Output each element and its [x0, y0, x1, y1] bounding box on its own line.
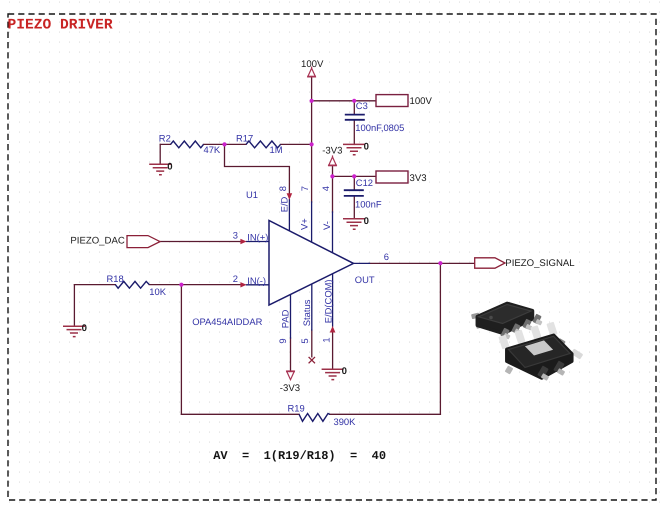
- svg-text:6: 6: [384, 251, 389, 262]
- svg-text:100V: 100V: [410, 96, 433, 107]
- svg-text:100nF,0805: 100nF,0805: [355, 122, 404, 133]
- wire pin 7 upper segment: [311, 144, 313, 202]
- svg-text:C12: C12: [356, 177, 373, 188]
- svg-text:1: 1: [320, 337, 331, 342]
- wire pin 5 to no-connect: [311, 330, 313, 357]
- junction R18/IN- node: [179, 283, 183, 287]
- arrow on pin 8 wire (down): [287, 193, 293, 200]
- pin 9 stub: [290, 295, 292, 338]
- ground under R2: [149, 164, 171, 174]
- junction C12 tap: [352, 174, 356, 178]
- wire R18 horizontal net to IN-: [74, 284, 240, 286]
- arrow into pin 2: [240, 282, 246, 287]
- pin 6 stub: [354, 262, 370, 264]
- wire C3 bottom lead to ground: [353, 120, 355, 144]
- svg-text:PIEZO_SIGNAL: PIEZO_SIGNAL: [505, 258, 575, 269]
- svg-text:-3V3: -3V3: [280, 383, 300, 394]
- junction 100V rail upper: [310, 99, 314, 103]
- wire 100V rail to offpage 100V: [312, 100, 376, 102]
- svg-text:3: 3: [233, 230, 238, 241]
- ground under R18: [63, 326, 85, 336]
- wire pin4 node to offpage 3V3: [332, 175, 376, 177]
- pin 4 stub: [332, 212, 334, 253]
- wire E/D branch from R2-R17 node down and right to pin 8: [225, 144, 290, 194]
- wire feedback right vertical: [439, 263, 441, 414]
- power symbol -3V3 (pin9, down): [286, 371, 295, 379]
- IC package photo: [471, 303, 583, 381]
- svg-text:U1: U1: [246, 189, 258, 200]
- offpage connector 3V3 box: [376, 171, 408, 183]
- svg-text:AV = 1(R19/R18) = 40: AV = 1(R19/R18) = 40: [213, 449, 386, 463]
- svg-text:PIEZO DRIVER: PIEZO DRIVER: [8, 17, 113, 33]
- pin 3 stub: [246, 241, 269, 243]
- junction -3V3 node: [330, 174, 334, 178]
- wire R2 left lead to ground: [159, 144, 161, 164]
- ground at pin 1: [322, 369, 344, 379]
- svg-text:Status: Status: [301, 299, 312, 326]
- ground under C3: [343, 144, 365, 154]
- svg-text:E/D(COM): E/D(COM): [322, 279, 333, 323]
- capacitor C12 plates: [344, 190, 364, 196]
- svg-text:IN(+): IN(+): [247, 232, 268, 243]
- op-amp U1 triangle: [269, 221, 354, 306]
- svg-text:-3V3: -3V3: [322, 146, 342, 157]
- pin 1 stub: [332, 274, 334, 326]
- chip B thermal pad: [525, 340, 553, 355]
- svg-text:OPA454AIDDAR: OPA454AIDDAR: [192, 316, 262, 327]
- no-connect X on pin 5: [309, 357, 315, 363]
- svg-text:47K: 47K: [204, 144, 221, 155]
- chip B body: [507, 335, 572, 378]
- resistor R18 body: [115, 281, 149, 288]
- svg-text:IN(-): IN(-): [247, 275, 266, 286]
- svg-text:390K: 390K: [334, 416, 357, 427]
- power symbol 100V: [307, 67, 316, 77]
- svg-text:100V: 100V: [301, 59, 324, 70]
- wire C12 bottom lead to ground: [353, 196, 355, 219]
- svg-text:8: 8: [277, 186, 288, 191]
- arrow on pin 1 wire (up): [330, 326, 336, 333]
- svg-text:0: 0: [167, 161, 172, 172]
- wire -3V3 to pin4 node: [332, 165, 334, 176]
- wire PIEZO_DAC to IN+: [160, 241, 241, 243]
- resistor R19 body: [299, 414, 330, 422]
- chip B bottom pins: [537, 360, 565, 378]
- svg-text:9: 9: [277, 338, 288, 343]
- svg-text:3V3: 3V3: [410, 173, 427, 184]
- wire pin 9 to -3V3: [290, 338, 292, 371]
- wire C3 top lead: [353, 101, 355, 114]
- svg-text:7: 7: [299, 186, 310, 191]
- svg-text:C3: C3: [356, 100, 368, 111]
- chip A left nubs: [471, 313, 485, 329]
- wire OUT to PIEZO_SIGNAL: [369, 262, 475, 264]
- svg-text:0: 0: [342, 366, 347, 377]
- chip A body: [477, 303, 532, 333]
- wire feedback bottom right segment: [330, 413, 441, 415]
- svg-text:R18: R18: [107, 273, 124, 284]
- pin 8 stub: [288, 200, 290, 232]
- svg-text:R2: R2: [159, 133, 171, 144]
- svg-text:0: 0: [82, 323, 87, 334]
- svg-text:V-: V-: [321, 221, 332, 230]
- chip B white pins: [498, 322, 557, 350]
- port PIEZO_DAC pentagon: [127, 236, 160, 248]
- svg-text:R19: R19: [288, 402, 305, 413]
- wire feedback bottom left segment: [181, 413, 299, 415]
- svg-text:R17: R17: [236, 133, 253, 144]
- power symbol -3V3 (pin4): [328, 155, 337, 165]
- wire 100V vertical to V+ node: [311, 77, 313, 145]
- pin 7 stub: [311, 202, 313, 242]
- wire R2/R17 horizontal net: [160, 143, 311, 145]
- wire C12 top lead: [353, 176, 355, 189]
- svg-text:PIEZO_DAC: PIEZO_DAC: [70, 236, 124, 247]
- pin 2 stub: [246, 284, 269, 286]
- wire feedback loop left vertical: [180, 285, 182, 415]
- offpage connector 100V box: [376, 95, 408, 107]
- svg-text:2: 2: [233, 273, 238, 284]
- junction R2/R17/E-D: [222, 142, 226, 146]
- chip A pins: [500, 314, 541, 339]
- port PIEZO_SIGNAL pentagon: [475, 258, 505, 268]
- svg-text:5: 5: [299, 338, 310, 343]
- resistor R2 body: [171, 141, 204, 148]
- chip B right pins: [571, 348, 583, 359]
- junction OUT node: [438, 261, 442, 265]
- svg-text:1M: 1M: [270, 144, 283, 155]
- svg-text:100nF: 100nF: [355, 199, 382, 210]
- svg-text:PAD: PAD: [280, 309, 291, 328]
- resistor R17 body: [246, 141, 281, 148]
- svg-text:V+: V+: [299, 218, 310, 230]
- wire R18 ground lead: [73, 285, 75, 326]
- svg-text:4: 4: [320, 186, 331, 191]
- arrow into pin 3: [240, 239, 246, 244]
- svg-text:10K: 10K: [149, 286, 166, 297]
- junction C3 tap: [352, 99, 356, 103]
- svg-text:0: 0: [364, 141, 369, 152]
- wire pin 4 upper segment: [332, 176, 334, 212]
- pin 5 stub: [311, 284, 313, 330]
- wire pin 1 to ground: [332, 332, 334, 369]
- capacitor C3 plates: [345, 115, 365, 120]
- svg-text:0: 0: [364, 216, 369, 227]
- junction V+ node: [310, 142, 314, 146]
- svg-text:OUT: OUT: [355, 274, 375, 285]
- svg-text:E/D: E/D: [278, 196, 289, 212]
- ground under C12: [343, 219, 365, 229]
